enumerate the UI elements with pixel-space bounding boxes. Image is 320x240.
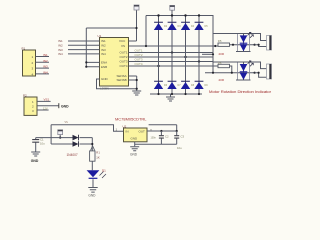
svg-text:GND: GND <box>61 105 69 109</box>
svg-text:VS1: VS1 <box>44 97 50 101</box>
svg-text:GND: GND <box>88 193 96 197</box>
svg-text:R5: R5 <box>218 39 222 43</box>
svg-text:1N4007: 1N4007 <box>67 153 78 157</box>
svg-text:10u: 10u <box>40 141 45 145</box>
svg-text:20R: 20R <box>219 52 225 56</box>
svg-text:C2: C2 <box>165 135 169 139</box>
svg-text:OUT: OUT <box>139 130 146 134</box>
svg-text:OUT1: OUT1 <box>120 51 128 55</box>
svg-text:20R: 20R <box>219 78 225 82</box>
svg-text:SENSB: SENSB <box>117 78 127 82</box>
svg-text:OUT3: OUT3 <box>120 60 128 64</box>
svg-text:ENB: ENB <box>101 65 107 69</box>
svg-text:GND: GND <box>31 159 39 163</box>
svg-text:P1: P1 <box>22 47 26 51</box>
svg-text:IN4: IN4 <box>43 70 48 74</box>
svg-text:OUT4: OUT4 <box>120 64 128 68</box>
svg-text:OUT1: OUT1 <box>135 49 143 53</box>
svg-text:10u: 10u <box>177 146 182 150</box>
svg-text:R6: R6 <box>218 61 222 65</box>
svg-text:VS: VS <box>65 121 69 124</box>
svg-text:IN1: IN1 <box>43 53 48 57</box>
svg-text:OUT2: OUT2 <box>135 53 143 57</box>
svg-text:IN4: IN4 <box>101 52 106 56</box>
svg-text:1K: 1K <box>96 156 100 160</box>
svg-text:IN: IN <box>126 130 129 134</box>
svg-text:C3: C3 <box>181 135 185 139</box>
svg-text:U1: U1 <box>98 34 102 38</box>
svg-text:Motor Rotation Direction Indic: Motor Rotation Direction Indicator <box>209 90 272 94</box>
svg-text:GND: GND <box>131 136 139 140</box>
svg-text:IN2: IN2 <box>43 59 48 63</box>
svg-text:IN3: IN3 <box>43 65 48 69</box>
svg-text:OUT2: OUT2 <box>120 55 128 59</box>
svg-text:MC78M05CDTRL: MC78M05CDTRL <box>115 117 147 121</box>
svg-text:IN4: IN4 <box>58 52 63 56</box>
svg-text:D1: D1 <box>102 168 106 172</box>
svg-text:100n: 100n <box>151 136 157 139</box>
svg-text:VCC: VCC <box>119 39 126 43</box>
svg-text:R1: R1 <box>96 151 100 155</box>
svg-text:OUT4: OUT4 <box>135 62 143 66</box>
svg-text:U2: U2 <box>123 125 127 129</box>
svg-text:GND: GND <box>130 153 138 157</box>
svg-text:GND: GND <box>101 77 109 81</box>
svg-text:12V: 12V <box>43 106 48 110</box>
svg-text:VS: VS <box>121 44 125 48</box>
svg-text:OUT3: OUT3 <box>135 58 143 62</box>
svg-text:P2: P2 <box>23 94 27 98</box>
